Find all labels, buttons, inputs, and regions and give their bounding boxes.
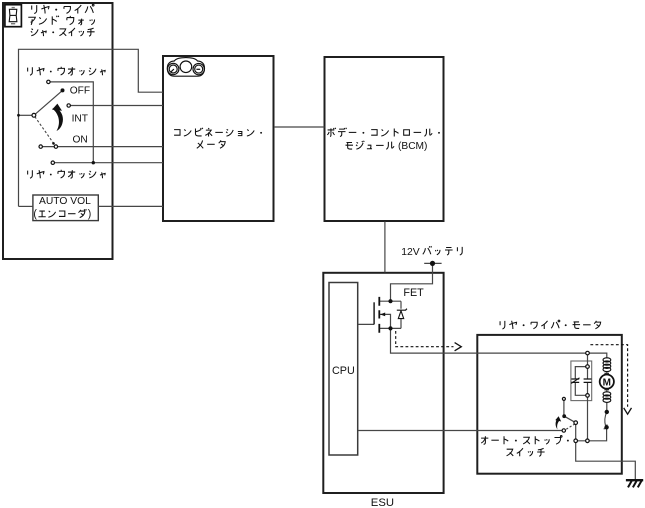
svg-text:(BCM): (BCM) (398, 141, 427, 152)
svg-text:(: ( (33, 208, 37, 220)
svg-text:FET: FET (403, 287, 424, 299)
svg-text:ESU: ESU (371, 497, 394, 508)
svg-text:): ) (88, 208, 92, 220)
svg-text:AUTO VOL: AUTO VOL (39, 196, 91, 207)
svg-text:M: M (603, 377, 611, 388)
svg-text:OFF: OFF (70, 86, 90, 97)
svg-text:12V: 12V (401, 247, 420, 258)
svg-text:CPU: CPU (332, 365, 355, 377)
svg-text:INT: INT (72, 114, 88, 125)
svg-text:ON: ON (73, 135, 88, 146)
